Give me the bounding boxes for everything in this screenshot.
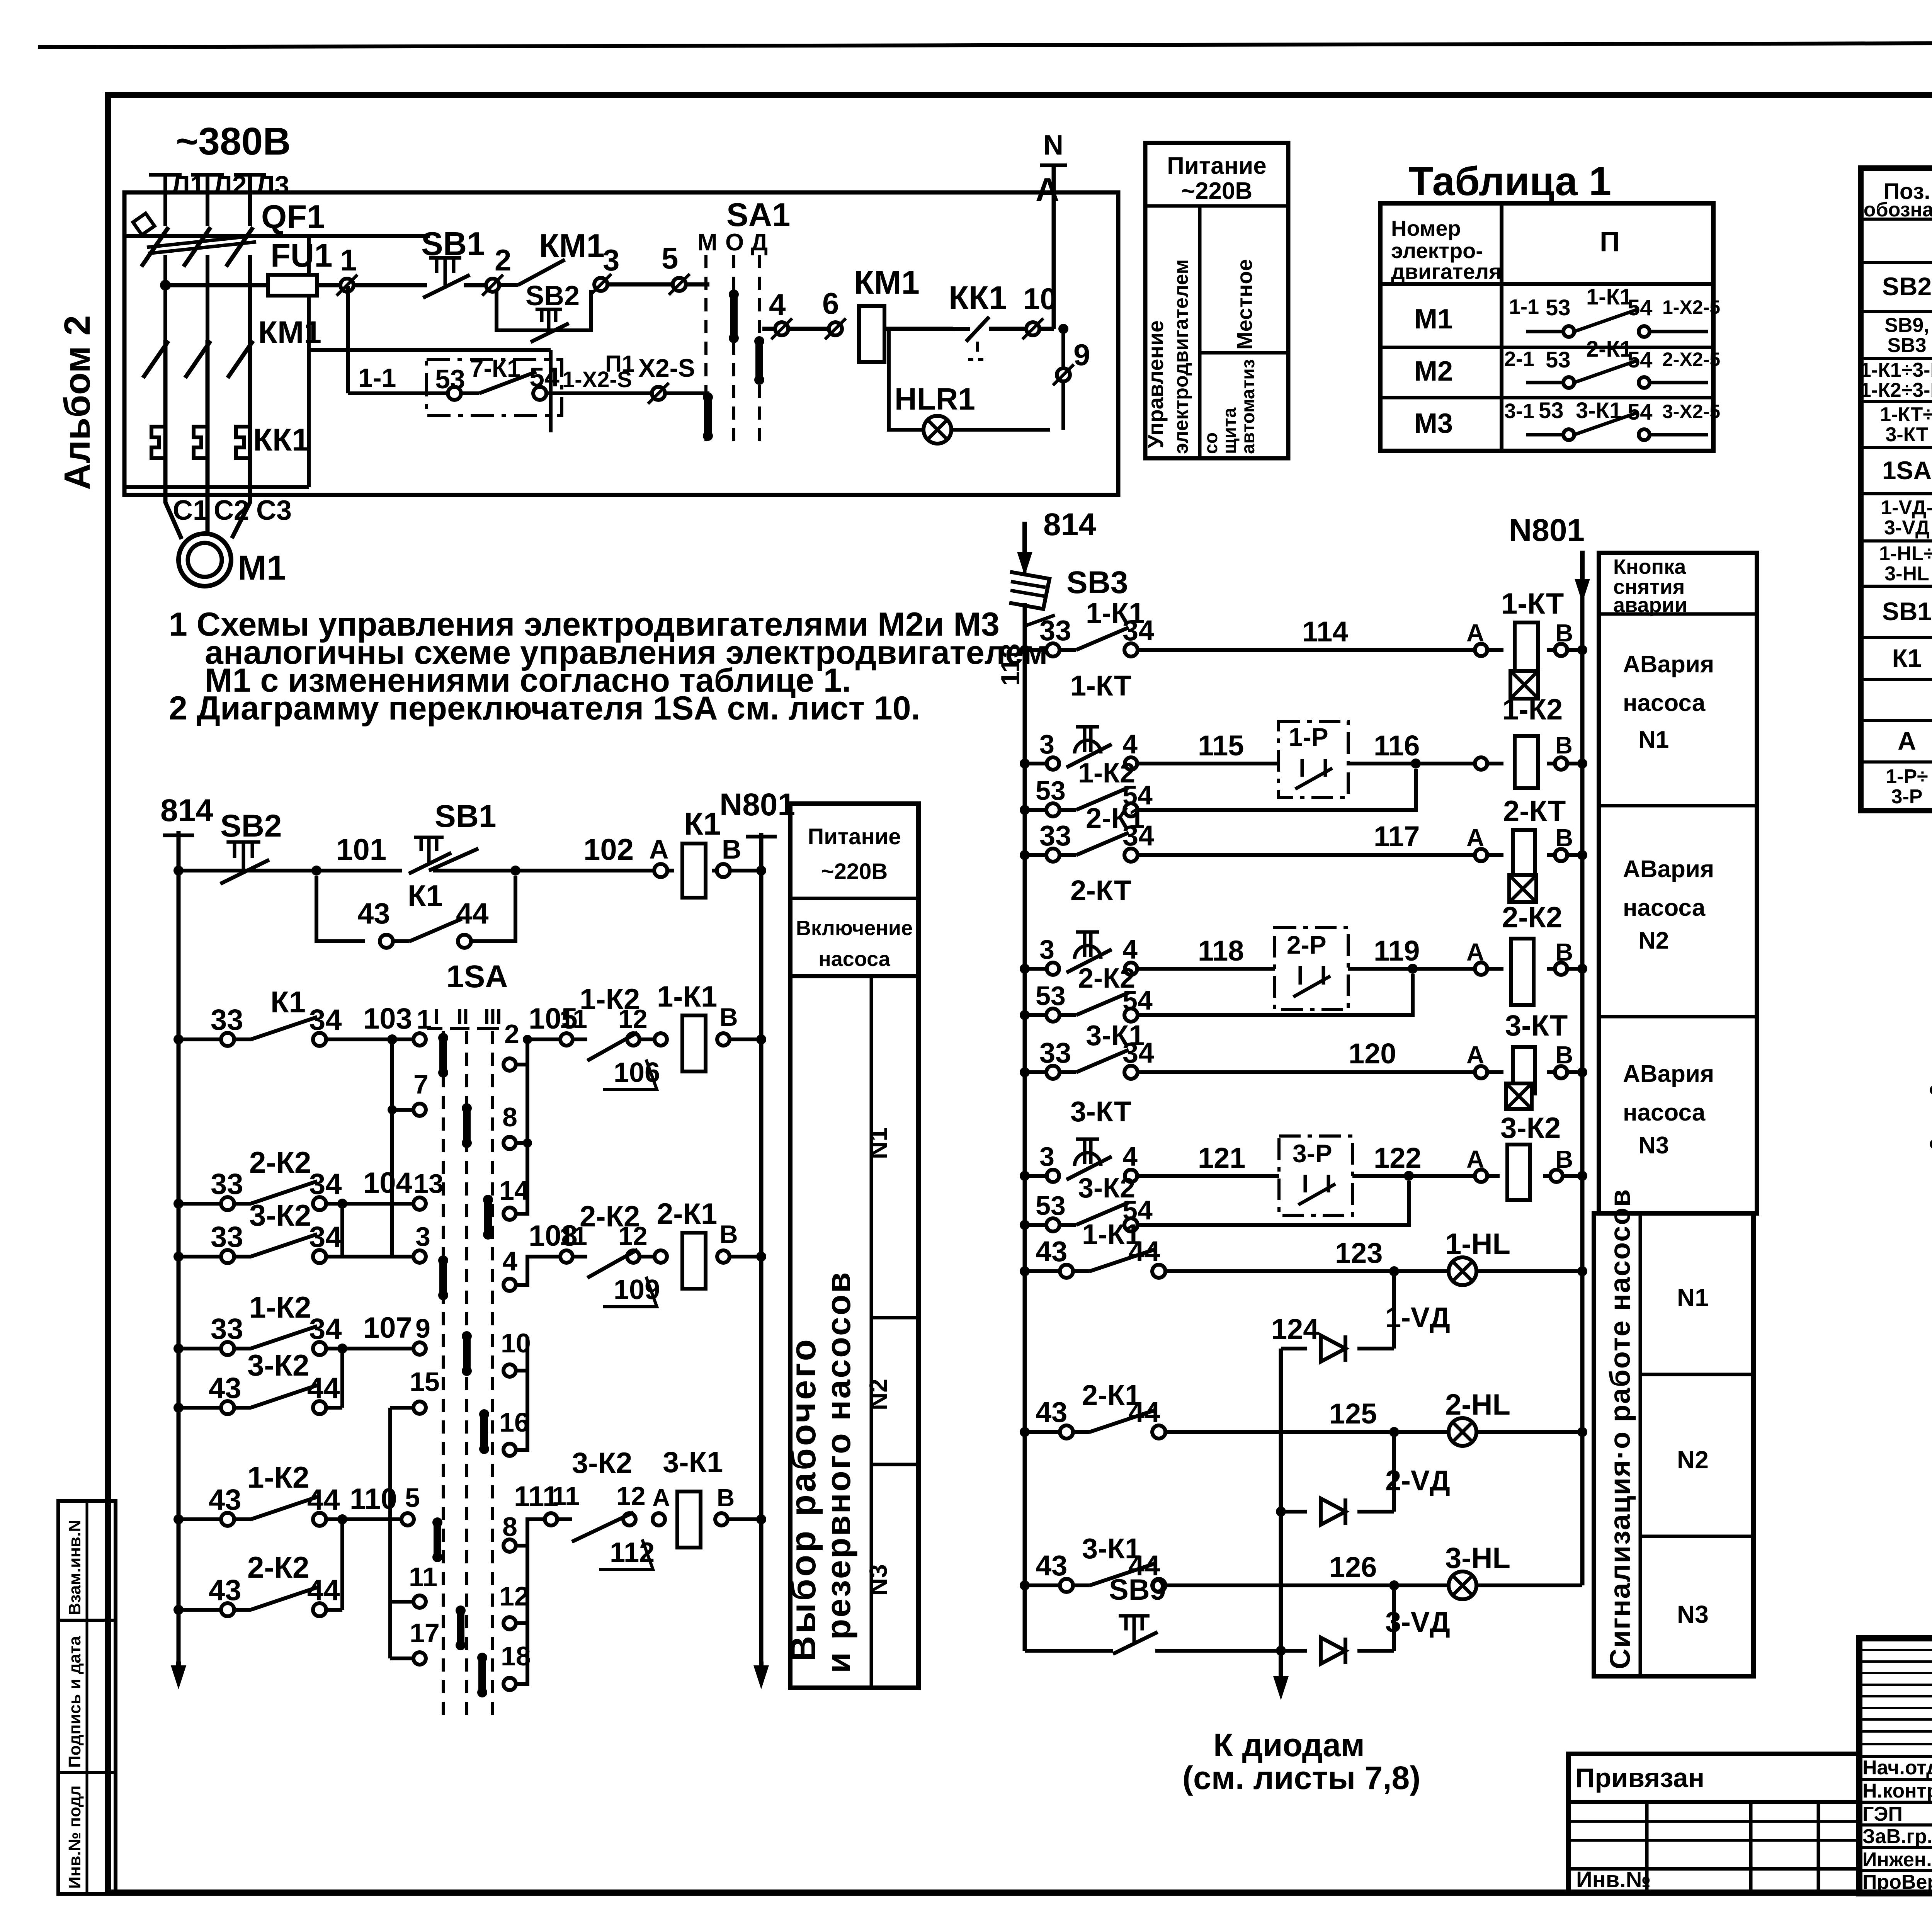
svg-text:Инв.№ подл: Инв.№ подл [65,1785,84,1889]
svg-text:Д: Д [751,229,768,256]
svg-text:SА1: SА1 [726,197,790,233]
rung A2 wire [1020,759,1030,769]
svg-text:3-VД: 3-VД [1884,517,1930,539]
wire SB1 to 2 [464,283,486,287]
svg-text:16: 16 [499,1407,529,1437]
svg-text:119: 119 [1374,935,1420,967]
lamp branch wire [889,329,1050,430]
svg-text:М1: М1 [1414,304,1453,335]
svg-text:Привязан: Привязан [1575,1763,1704,1793]
pump select label table [790,804,918,1688]
parts table grid [1861,168,1932,811]
svg-text:14: 14 [499,1175,529,1206]
svg-text:3-Х2-5: 3-Х2-5 [1662,401,1720,422]
indicator cross 2-КТ [1509,875,1536,902]
svg-text:Питание: Питание [1167,153,1267,179]
svg-text:1-К1÷3-К1: 1-К1÷3-К1 [1860,359,1932,381]
rung 4 wire [173,1252,184,1262]
svg-text:ЗаВ.гр.: ЗаВ.гр. [1862,1825,1932,1848]
selector SA1 dashed lines [704,255,707,444]
svg-text:7: 7 [413,1069,429,1099]
svg-text:11: 11 [552,1481,580,1511]
wire three-phase bus [165,283,268,287]
svg-text:4: 4 [1122,729,1138,759]
svg-text:Альбом 2: Альбом 2 [57,315,98,490]
diode bus vertical [1279,1349,1283,1651]
rung B1 wire [1020,1266,1030,1276]
svg-text:2-Х2-5: 2-Х2-5 [1662,349,1720,370]
node after SB1 [510,866,520,876]
svg-text:аварии: аварии [1613,594,1687,617]
svg-text:4: 4 [769,287,786,321]
svg-text:КК1: КК1 [253,422,310,457]
SA1 closed position bars [730,294,738,338]
node 123 [1389,1266,1399,1276]
node 104 [337,1199,347,1209]
svg-text:2-К1: 2-К1 [1586,337,1632,362]
node 125 [1389,1427,1399,1437]
wire 3 to 5 [607,282,673,287]
sheet top edge [38,42,1932,47]
wire 1 to SB1 [354,283,427,287]
svg-text:53: 53 [1539,398,1564,423]
svg-text:4: 4 [1122,1141,1138,1172]
svg-text:Таблица 1: Таблица 1 [1408,159,1611,204]
node 119 [1408,964,1418,974]
svg-text:3: 3 [1039,1141,1054,1172]
svg-text:2-К2: 2-К2 [580,1200,640,1233]
aux rung 2 wire [1930,1085,1932,1095]
svg-text:двигателя: двигателя [1391,259,1502,284]
svg-text:Питание: Питание [808,824,901,849]
svg-text:43: 43 [1036,1396,1067,1428]
svg-text:автоматиз: автоматиз [1238,359,1259,454]
motor M1 [179,534,231,586]
svg-text:N801: N801 [1509,513,1585,548]
svg-text:со: со [1201,432,1221,454]
node 110 [337,1514,347,1524]
svg-text:К1: К1 [1892,644,1922,672]
svg-text:SB3: SB3 [1887,334,1926,357]
svg-text:53: 53 [1036,776,1066,806]
svg-text:А: А [652,1484,670,1512]
svg-text:SB2: SB2 [526,281,580,311]
branch rung5-rung6 [340,1349,344,1408]
svg-text:К1: К1 [408,879,443,913]
diode 2-VД [1321,1498,1345,1525]
svg-text:123: 123 [1335,1237,1383,1269]
svg-text:3-К2: 3-К2 [247,1348,309,1382]
svg-text:2-К1: 2-К1 [657,1197,717,1230]
terminal А rung7 [653,1513,665,1526]
svg-text:КМ1: КМ1 [258,315,321,350]
svg-text:12: 12 [616,1481,646,1511]
rung 5 wire [173,1344,184,1354]
svg-text:1-1: 1-1 [358,363,396,393]
svg-text:Подпись и дата: Подпись и дата [65,1636,84,1768]
svg-text:N2: N2 [1638,927,1669,954]
self-hold branch wire [316,876,365,941]
svg-text:104: 104 [363,1167,412,1199]
table 1 grid [1380,203,1713,451]
svg-text:1-К2: 1-К2 [247,1460,309,1494]
rung 7 wire (43 1-К2 44 / 110 5) [173,1514,184,1524]
left stamp table [58,1501,116,1894]
svg-text:2-КТ: 2-КТ [1070,874,1131,906]
rung 6 wire (43 3-К2 44) [173,1403,184,1413]
svg-text:1-1: 1-1 [1509,295,1539,318]
svg-text:В: В [1555,824,1573,852]
svg-text:3-К2: 3-К2 [249,1198,311,1232]
svg-text:К1: К1 [684,806,721,842]
manometer 1-Р box [1279,721,1348,798]
wire КК1 to 10 [989,327,1026,331]
svg-text:I: I [434,1004,440,1029]
svg-text:814: 814 [1043,507,1096,542]
svg-text:2: 2 [495,243,511,277]
svg-text:118: 118 [1198,935,1244,967]
rung A6 wire [1020,1171,1030,1181]
vertical link terminals 15-17 [388,1408,392,1658]
svg-text:3: 3 [1039,729,1054,759]
rung A5 wire [1020,1067,1030,1077]
box A (control cabinet outline) [124,192,1118,495]
svg-text:44: 44 [456,897,489,930]
svg-text:КК1: КК1 [949,280,1007,316]
svg-text:12: 12 [499,1581,529,1611]
svg-text:2-1: 2-1 [1504,347,1534,371]
svg-text:О: О [725,229,744,256]
svg-text:1-К2: 1-К2 [1502,693,1563,726]
svg-text:SB2: SB2 [1882,272,1932,301]
svg-text:3-HL: 3-HL [1884,563,1929,585]
svg-text:и резервного насосов: и резервного насосов [819,1270,857,1673]
diode 3-VД [1321,1638,1345,1664]
svg-text:~220В: ~220В [1181,178,1252,204]
svg-text:SB9,: SB9, [1884,314,1929,337]
svg-text:34: 34 [1122,1037,1154,1069]
svg-text:3-HL: 3-HL [1445,1542,1510,1575]
svg-text:54: 54 [1628,347,1653,372]
svg-text:обознач.: обознач. [1864,199,1932,221]
svg-text:Инжен.: Инжен. [1862,1849,1932,1871]
aux rung 3 wire [1930,1139,1932,1149]
branch rung7-rung8 [340,1519,344,1610]
svg-text:17: 17 [410,1618,440,1648]
svg-text:2 Диаграмму переключателя 1S: 2 Диаграмму переключателя 1SА см. лист 1… [169,690,920,727]
diode bus arrow [1276,1646,1286,1656]
svg-text:4: 4 [1122,934,1138,964]
svg-text:Н.контр.: Н.контр. [1862,1780,1932,1802]
bypass with button SB2 [497,290,591,330]
svg-text:13: 13 [413,1168,444,1199]
node 103 [387,1034,397,1044]
terminal В rung4 [717,1250,730,1263]
svg-text:125: 125 [1329,1398,1377,1430]
rung 3 wire [173,1199,184,1209]
svg-text:1-КТ: 1-КТ [1501,587,1564,620]
rung A4 wire [1020,964,1030,974]
svg-text:Х2-S: Х2-S [638,354,695,382]
svg-text:1-VД: 1-VД [1385,1301,1450,1333]
rung A6b wire 53-54 [1020,1220,1030,1230]
svg-text:3-Р: 3-Р [1891,786,1923,808]
svg-text:34: 34 [1122,614,1154,646]
alarm label table [1599,553,1757,1213]
svg-text:(см. листы 7,8): (см. листы 7,8) [1182,1760,1420,1796]
svg-text:53: 53 [1546,347,1571,372]
svg-text:102: 102 [583,832,634,866]
svg-text:53: 53 [1036,981,1066,1011]
svg-text:М3: М3 [1414,408,1453,439]
svg-text:SB2: SB2 [220,808,282,844]
svg-text:С3: С3 [256,495,292,526]
phase bus junction [160,280,171,291]
svg-text:АВария: АВария [1623,651,1714,678]
indicator cross 3-КТ [1506,1083,1532,1109]
svg-text:3-VД: 3-VД [1385,1606,1450,1638]
svg-text:N801: N801 [719,787,795,822]
svg-text:34: 34 [1122,820,1154,852]
svg-text:3: 3 [1039,934,1054,964]
svg-text:1-Р÷: 1-Р÷ [1886,765,1928,788]
svg-text:9: 9 [1073,338,1090,372]
svg-text:N1: N1 [1638,726,1669,753]
svg-text:5: 5 [405,1483,420,1513]
svg-text:33: 33 [1039,614,1071,646]
svg-text:В: В [717,1484,735,1512]
1SA closed bars [439,1038,447,1073]
svg-text:1-К2÷3-К2: 1-К2÷3-К2 [1860,379,1932,401]
svg-text:SB1: SB1 [435,799,497,834]
svg-text:АВария: АВария [1623,856,1714,883]
svg-text:115: 115 [1198,730,1244,762]
svg-text:В: В [719,1220,738,1248]
svg-text:1: 1 [340,243,357,277]
title block outline [1859,1638,1932,1893]
svg-text:N2: N2 [864,1379,892,1410]
wire coil to КК1 [885,327,953,331]
svg-text:116: 116 [1374,730,1420,762]
svg-text:54: 54 [1628,400,1653,425]
svg-text:101: 101 [336,832,386,866]
svg-text:11: 11 [409,1562,437,1592]
svg-text:П: П [1600,226,1620,257]
svg-text:53: 53 [1546,295,1571,320]
svg-text:1-К1: 1-К1 [657,980,717,1013]
svg-text:QF1: QF1 [261,199,325,235]
svg-text:3-1: 3-1 [1504,400,1534,423]
node 101 [311,866,321,876]
svg-text:С1: С1 [173,495,208,526]
svg-text:HLR1: HLR1 [895,382,975,416]
svg-text:М: М [697,229,718,256]
svg-text:3: 3 [603,243,619,277]
svg-text:2-К2: 2-К2 [247,1550,309,1584]
wire Х2-S to SA1 [665,391,709,395]
svg-text:М1: М1 [238,549,286,587]
left ladder left rail arrow [176,1662,181,1674]
svg-text:3: 3 [415,1221,430,1252]
svg-text:В: В [1555,1041,1573,1069]
svg-text:N3: N3 [864,1564,892,1596]
svg-text:~380В: ~380В [176,120,291,163]
svg-text:1SА: 1SА [1882,456,1932,485]
svg-text:1-КТ: 1-КТ [1070,670,1131,702]
svg-text:III: III [484,1004,502,1029]
svg-text:Включение: Включение [796,917,913,940]
svg-text:3-К1: 3-К1 [663,1446,723,1479]
svg-text:Номер: Номер [1391,216,1461,240]
svg-text:В: В [1555,732,1573,759]
svg-text:1-К2: 1-К2 [249,1290,311,1324]
svg-text:8: 8 [502,1102,517,1132]
left ladder left rail [177,871,181,1662]
terminal А rung4 [655,1250,667,1263]
node 116 [1411,759,1421,769]
svg-text:~220В: ~220В [821,859,888,884]
svg-text:N1: N1 [864,1128,892,1159]
aux circuit 1-1 row wire [348,391,448,395]
svg-text:33: 33 [1039,820,1071,852]
svg-text:Сигнализация·о работе насосов: Сигнализация·о работе насосов [1604,1189,1636,1669]
inner box around starter column [124,234,430,238]
svg-text:3-К2: 3-К2 [1500,1112,1561,1145]
svg-text:126: 126 [1329,1551,1377,1583]
wire bus to terminal 1 [317,283,340,287]
terminal В rung2 [717,1033,730,1046]
svg-text:114: 114 [1302,616,1348,648]
pr box Привязан [1568,1754,1859,1893]
svg-text:2-VД: 2-VД [1385,1464,1450,1497]
svg-text:II: II [457,1004,469,1029]
svg-text:Нач.отд: Нач.отд [1862,1757,1932,1779]
svg-text:В: В [722,834,742,864]
svg-text:2-К2: 2-К2 [1502,901,1562,934]
title staff rows [1859,1755,1932,1758]
svg-text:120: 120 [1349,1037,1396,1070]
svg-text:9: 9 [415,1313,430,1344]
svg-text:N3: N3 [1638,1132,1669,1159]
signal label table [1594,1213,1753,1676]
rung 8 wire (43 2-К2 44) [173,1605,184,1615]
rung A1 wire [1020,645,1030,655]
svg-text:107: 107 [363,1311,412,1344]
wire SA1 to 4 [762,327,775,331]
svg-text:N2: N2 [1677,1446,1709,1474]
node 126 [1389,1580,1399,1590]
mid ladder left rail [1023,603,1027,1651]
branch from node 103 down [390,1039,394,1257]
terminal 9 [1057,368,1070,381]
svg-text:121: 121 [1198,1142,1245,1174]
manometer 2-Р box [1275,927,1348,1010]
svg-text:насоса: насоса [1623,1099,1706,1126]
svg-text:1-К2: 1-К2 [580,983,640,1016]
svg-text:В: В [719,1003,738,1031]
svg-text:103: 103 [363,1002,412,1035]
wire 4 to 6 [788,327,829,331]
svg-text:54: 54 [1628,295,1653,320]
manometer 3-Р box [1279,1136,1352,1215]
node 122 [1404,1171,1414,1181]
wire 54 to Х2-S [546,391,652,395]
svg-text:3-КТ: 3-КТ [1070,1095,1131,1128]
rung A2b wire 53-54 [1020,805,1030,815]
svg-text:3-Р: 3-Р [1293,1139,1332,1168]
wire 10 to N [1039,327,1054,331]
left ladder right rail arrow [759,1662,764,1674]
svg-text:1-Х2-5: 1-Х2-5 [1662,296,1720,318]
svg-text:SB9: SB9 [1109,1573,1166,1606]
terminal А rung2 [655,1033,667,1046]
svg-text:щита: щита [1219,407,1240,454]
rung 2 wire [173,1034,184,1044]
svg-text:814: 814 [160,793,213,828]
svg-text:1-КТ÷: 1-КТ÷ [1880,403,1932,426]
svg-text:N3: N3 [1677,1600,1709,1628]
branch rung3-rung4 [340,1204,344,1257]
title narrow rows [1859,1649,1932,1651]
svg-text:4: 4 [502,1246,517,1276]
svg-text:2: 2 [504,1019,519,1049]
svg-text:43: 43 [1036,1235,1067,1267]
svg-text:электродвигателем: электродвигателем [1170,259,1192,454]
svg-text:2-HL: 2-HL [1445,1388,1510,1421]
subcircuit box lines [308,348,551,352]
svg-text:SB1: SB1 [1882,597,1932,626]
svg-text:43: 43 [357,897,390,930]
indicator cross 1-КТ [1510,671,1538,699]
diode rung 1-VД wire [1281,1347,1307,1350]
svg-text:1-HL÷: 1-HL÷ [1879,543,1932,565]
rung 1 wire [173,866,184,876]
svg-text:Кнопка: Кнопка [1613,555,1686,578]
svg-text:К диодам: К диодам [1213,1727,1365,1763]
diode 1-VД [1321,1335,1345,1362]
svg-text:АВария: АВария [1623,1061,1714,1087]
terminal В A2 [1555,757,1567,770]
svg-text:Местное: Местное [1232,259,1257,350]
svg-text:3-КТ: 3-КТ [1885,423,1928,446]
svg-text:насоса: насоса [818,947,891,971]
rung B2 wire [1020,1427,1030,1437]
svg-text:5: 5 [662,241,678,275]
svg-text:N1: N1 [1677,1284,1709,1311]
rung SB9 wire [1025,1649,1113,1653]
svg-text:117: 117 [1374,820,1420,852]
svg-text:122: 122 [1374,1142,1421,1174]
svg-text:Л3: Л3 [256,170,289,200]
svg-text:1-Х2-S: 1-Х2-S [562,367,632,392]
svg-text:ГЭП: ГЭП [1862,1803,1903,1825]
svg-text:Инв.№: Инв.№ [1576,1867,1651,1892]
svg-text:Взам.инв.N: Взам.инв.N [65,1520,84,1615]
svg-text:8: 8 [502,1512,517,1542]
svg-text:7-К1: 7-К1 [470,354,521,382]
phase terminals Л1 Л2 Л3 [149,173,182,177]
terminal А A2 [1475,757,1487,770]
svg-text:А: А [1898,726,1916,755]
svg-text:3-КТ: 3-КТ [1505,1009,1568,1042]
svg-text:2-К2: 2-К2 [249,1145,311,1179]
svg-text:1SА: 1SА [446,959,508,994]
svg-text:N: N [1043,130,1063,161]
svg-text:SB3: SB3 [1066,565,1128,600]
terminal В rung7 [715,1513,728,1526]
wire 5 to SA1 [685,282,709,287]
svg-text:ПроВер.: ПроВер. [1862,1871,1932,1893]
